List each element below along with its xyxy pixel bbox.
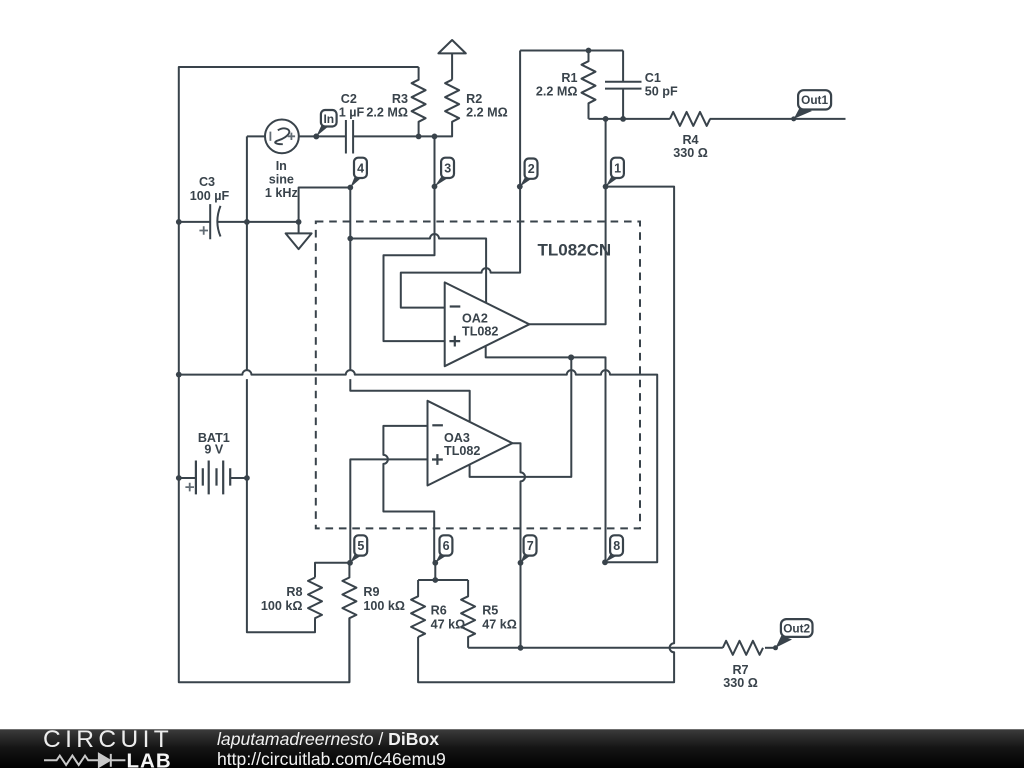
- svg-text:C2: C2: [341, 92, 357, 106]
- svg-text:R4: R4: [682, 133, 698, 147]
- node flag 6: [435, 535, 452, 563]
- wire node4 down to OA3 V+ stub: [350, 188, 469, 422]
- svg-text:6: 6: [443, 539, 450, 553]
- svg-text:47 kΩ: 47 kΩ: [482, 617, 517, 631]
- node flag 1: [606, 158, 624, 187]
- svg-text:R1: R1: [561, 71, 577, 85]
- battery BAT1: [179, 461, 247, 495]
- battery plus mark: [185, 483, 194, 492]
- svg-text:7: 7: [527, 539, 534, 553]
- resistor R9: [342, 563, 356, 682]
- op-amp U1 OA2: [445, 282, 530, 366]
- svg-text:TL082CN: TL082CN: [538, 241, 612, 260]
- svg-text:LAB: LAB: [127, 752, 172, 768]
- svg-text:330 Ω: 330 Ω: [673, 146, 708, 160]
- svg-text:C3: C3: [199, 175, 215, 189]
- wire OA3 plus input to node5: [350, 459, 427, 562]
- svg-text:5: 5: [357, 539, 364, 553]
- svg-text:3: 3: [444, 161, 451, 175]
- wire OA3 output down to node7 and R5 row: [512, 443, 525, 648]
- svg-text:2.2 MΩ: 2.2 MΩ: [366, 105, 408, 119]
- svg-text:1 µF: 1 µF: [339, 105, 365, 119]
- node flag 3: [435, 158, 455, 187]
- svg-text:R8: R8: [286, 585, 302, 599]
- node flag 2: [520, 159, 538, 187]
- wire R4 to Out1: [710, 118, 846, 120]
- source V1 sine: [265, 119, 299, 153]
- resistor R6: [411, 580, 425, 637]
- capacitor C1: [605, 51, 642, 119]
- net flag Out1: [794, 90, 831, 119]
- source polarity marks: [269, 132, 271, 141]
- wire C3 row: [179, 221, 299, 223]
- ground symbol: [286, 222, 312, 249]
- resistor R3: [412, 67, 426, 137]
- svg-text:C1: C1: [645, 71, 661, 85]
- wire node5 row to R8 top: [315, 563, 350, 578]
- wire OA3 V- loop: [470, 357, 572, 477]
- wire node3 to OA2 plus input: [384, 136, 445, 341]
- svg-text:R6: R6: [431, 603, 447, 617]
- CircuitLab logo resistor-diode glyph and LAB: [44, 752, 180, 768]
- op-amp input polarity marks OA2: [449, 307, 460, 347]
- wire node2 to OA2 minus input: [401, 51, 520, 308]
- svg-text:Out2: Out2: [783, 621, 810, 635]
- wire node1 vertical OA2 output to R1 bottom: [529, 119, 605, 324]
- op-amp input polarity marks OA3: [432, 425, 443, 465]
- svg-text:100 µF: 100 µF: [190, 189, 230, 203]
- node anchor dots: [347, 185, 353, 191]
- svg-text:R3: R3: [392, 92, 408, 106]
- op-amp U2 OA3: [428, 401, 513, 486]
- wire OA2 V- stub row to node8: [486, 346, 606, 562]
- wire source left lead down to battery and R8 bottom: [247, 136, 315, 632]
- wire R1/C1 top row: [520, 50, 623, 52]
- wire top-left rail and bottom-left rail: [179, 67, 419, 682]
- wire R2/R3 bottom row to C2: [316, 135, 434, 137]
- svg-text:OA2: OA2: [462, 312, 488, 326]
- resistor R1: [582, 51, 596, 119]
- svg-text:47 kΩ: 47 kΩ: [431, 617, 466, 631]
- footer username and document title: [217, 729, 439, 750]
- wire R1/C1 bottom row to R4: [589, 118, 670, 120]
- net flag Out2: [776, 619, 813, 648]
- wire node4 row to OA2 V+ stub: [350, 234, 486, 303]
- svg-text:4: 4: [357, 161, 364, 175]
- svg-text:100 kΩ: 100 kΩ: [261, 599, 303, 613]
- footer bar: [0, 729, 1024, 768]
- footer url: [217, 749, 446, 768]
- resistor R7: [723, 641, 763, 655]
- wire R5 bottom row to R7: [468, 647, 723, 649]
- svg-text:sine: sine: [269, 172, 294, 186]
- svg-text:R2: R2: [466, 92, 482, 106]
- svg-text:2: 2: [528, 162, 535, 176]
- node flag 4: [350, 158, 367, 188]
- node flag 5: [350, 535, 367, 563]
- svg-text:1: 1: [614, 161, 621, 175]
- capacitor C2: [346, 120, 353, 154]
- svg-text:In: In: [323, 112, 334, 126]
- svg-text:In: In: [276, 159, 287, 173]
- node flag 7: [521, 535, 537, 563]
- node flag 8: [605, 535, 623, 562]
- CircuitLab logo text CIRCUIT: [43, 726, 173, 754]
- svg-text:R7: R7: [732, 663, 748, 677]
- svg-text:50 pF: 50 pF: [645, 84, 678, 98]
- svg-text:330 Ω: 330 Ω: [723, 676, 758, 690]
- wire node1 right branch down to bottom rail and R6 bottom: [418, 187, 674, 683]
- svg-text:R5: R5: [482, 603, 498, 617]
- power flag VCC arrow: [438, 40, 465, 80]
- svg-text:TL082: TL082: [444, 444, 480, 458]
- C3 plus mark: [199, 226, 208, 235]
- resistor R5: [461, 580, 475, 648]
- svg-text:100 kΩ: 100 kΩ: [363, 599, 405, 613]
- sine symbol inside source: [275, 128, 289, 144]
- svg-text:1 kHz: 1 kHz: [265, 186, 298, 200]
- wire node4 to ground junction: [299, 188, 351, 222]
- svg-text:9 V: 9 V: [204, 443, 224, 457]
- resistor R8: [308, 578, 322, 619]
- svg-text:R9: R9: [363, 585, 379, 599]
- resistor R2: [435, 80, 460, 137]
- wire node6 to R6/R5 top row: [418, 563, 468, 580]
- resistor R4: [670, 112, 710, 126]
- svg-text:8: 8: [613, 539, 620, 553]
- wire OA3 minus input to node6: [383, 426, 434, 563]
- svg-text:OA3: OA3: [444, 431, 470, 445]
- capacitor C3 polarized: [210, 204, 220, 239]
- IC boundary dashed box TL082CN: [316, 222, 640, 529]
- svg-text:Out1: Out1: [801, 93, 828, 107]
- net flag In: [316, 110, 336, 136]
- wire R7 to Out2: [765, 647, 776, 649]
- svg-text:TL082: TL082: [462, 325, 498, 339]
- svg-text:2.2 MΩ: 2.2 MΩ: [536, 84, 578, 98]
- wire mid supply bus: [179, 370, 657, 562]
- svg-text:2.2 MΩ: 2.2 MΩ: [466, 105, 508, 119]
